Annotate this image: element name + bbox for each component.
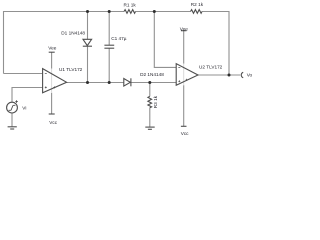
- svg-text:U2 TLV172: U2 TLV172: [199, 65, 223, 70]
- svg-text:Vo: Vo: [247, 73, 253, 78]
- svg-text:R2 1k: R2 1k: [191, 2, 204, 7]
- svg-text:D2 1N4148: D2 1N4148: [140, 72, 164, 77]
- svg-text:Vcc: Vcc: [181, 131, 189, 136]
- svg-text:U1 TLV172: U1 TLV172: [59, 67, 83, 72]
- svg-text:Vee: Vee: [48, 45, 56, 50]
- svg-text:D1 1N4148: D1 1N4148: [61, 31, 85, 36]
- svg-text:Vcc: Vcc: [49, 120, 57, 125]
- svg-text:C1 47µ: C1 47µ: [111, 36, 127, 41]
- svg-text:Vee: Vee: [180, 26, 188, 31]
- svg-text:R3 1k: R3 1k: [153, 95, 158, 108]
- svg-text:R1 1k: R1 1k: [124, 2, 137, 7]
- svg-text:Vi: Vi: [22, 106, 26, 111]
